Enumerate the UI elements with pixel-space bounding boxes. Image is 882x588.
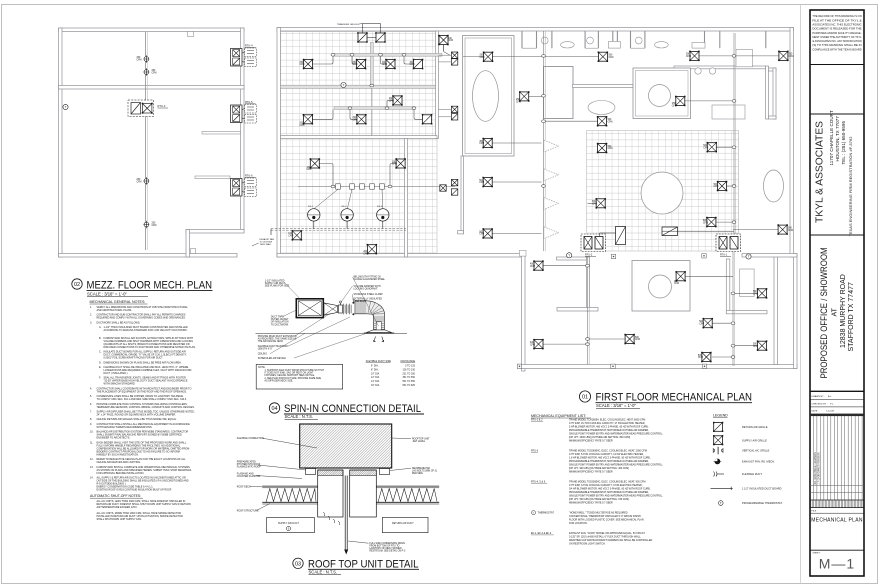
spin-in fitting cone [324, 303, 338, 315]
title block: seal area [810, 113, 864, 115]
svg-text:REQUIRED AND COMPLY WITH ALL G: REQUIRED AND COMPLY WITH ALL GOVERNING C… [97, 317, 187, 320]
svg-text:501 TO 650: 501 TO 650 [402, 381, 415, 383]
svg-text:CFM: CFM [288, 236, 293, 238]
svg-text:6" DIA.: 6" DIA. [371, 365, 379, 368]
svg-text:MECHANICAL PLAN: MECHANICAL PLAN [811, 518, 863, 524]
svg-text:TEL : (281) 650-9595: TEL : (281) 650-9595 [841, 121, 846, 165]
svg-text:DATE :: DATE : [812, 410, 820, 413]
svg-text:& ASSOCIATES INC. ANY MODI: & ASSOCIATES INC. ANY MODIFICATION [812, 40, 861, 43]
rooftop detail labels [237, 438, 437, 553]
svg-text:PROPOSED OFFICE / SHOWROOM: PROPOSED OFFICE / SHOWROOM [819, 248, 829, 379]
svg-text:EF-2: EF-2 [342, 206, 348, 208]
svg-text:D.: D. [99, 361, 102, 364]
svg-text:AIR TEMPERATURE EXCEED 125 F.: AIR TEMPERATURE EXCEED 125 F. [97, 506, 138, 509]
svg-text:CFM: CFM [152, 225, 157, 227]
svg-text:MINIMUM EFFICIENCY RATE 9.7 SE: MINIMUM EFFICIENCY RATE 9.7 SEER [569, 502, 613, 505]
svg-text:CFM: CFM [788, 230, 793, 232]
svg-text:CFM: CFM [479, 234, 484, 236]
air flow arrows under diffuser [374, 337, 384, 342]
conference room [463, 36, 515, 157]
svg-text:CFM: CFM [363, 254, 368, 256]
svg-text:4.: 4. [90, 387, 92, 390]
svg-text:FLEXIBLE DUCT SIZE: FLEXIBLE DUCT SIZE [366, 360, 392, 363]
svg-text:AT: AT [832, 307, 839, 316]
svg-text:AS DIFFUSER NECK SIZE.: AS DIFFUSER NECK SIZE. [265, 380, 294, 383]
svg-text:14.: 14. [90, 477, 94, 480]
svg-text:STAFFORD TX 77477: STAFFORD TX 77477 [848, 282, 855, 351]
svg-text:OUTER JACKET: OUTER JACKET [271, 318, 289, 321]
svg-text:SUPPLY AIR DUCT: SUPPLY AIR DUCT [265, 282, 286, 285]
svg-text:7.: 7. [90, 411, 92, 414]
svg-text:CFM: CFM [608, 121, 613, 123]
svg-text:CFM: CFM [703, 147, 708, 149]
svg-text:231 TO 350: 231 TO 350 [402, 373, 415, 375]
svg-text:LOCKING QUADRANT: LOCKING QUADRANT [354, 287, 379, 290]
svg-text:FIXTURES, CEILING SUPPORT TEES: FIXTURES, CEILING SUPPORT TEES OR TILE. [265, 375, 316, 377]
showroom ceiling grid [587, 131, 739, 252]
svg-text:AND ARCHITECTURAL PLANS.: AND ARCHITECTURAL PLANS. [97, 309, 133, 312]
ceiling line [256, 332, 408, 334]
svg-text:1 7-10-08 OWNER REVISION: 1 7-10-08 OWNER REVISION [818, 452, 821, 484]
vertical a/c grilles (triangles) [544, 140, 559, 239]
office room with round table [633, 68, 691, 119]
svg-text:8.: 8. [90, 418, 92, 421]
svg-text:1 1/2" INSULATED DUCT BOARD: 1 1/2" INSULATED DUCT BOARD [742, 487, 782, 490]
svg-text:CFM: CFM [530, 344, 535, 346]
svg-text:T: T [568, 253, 570, 257]
conference table oval [473, 71, 499, 122]
svg-text:LEGEND: LEGEND [713, 414, 728, 418]
svg-text:SCALE : N.T.S.: SCALE : N.T.S. [309, 569, 338, 574]
svg-text:12.: 12. [90, 458, 94, 461]
svg-text:MEZZ. FLOOR MECH. PLAN: MEZZ. FLOOR MECH. PLAN [87, 280, 213, 292]
svg-text:CFM: CFM [410, 64, 415, 66]
roof deck lines + bar joists [262, 486, 439, 504]
spin-in note box [256, 365, 343, 390]
svg-text:DOCUMENT IS RELEASED: DOCUMENT IS RELEASED FOR THE [812, 28, 862, 31]
svg-text:RETURN AIR GRILLE: RETURN AIR GRILLE [742, 426, 768, 429]
svg-text:CFM: CFM [448, 40, 453, 42]
condensate drain pipe [344, 476, 348, 555]
svg-text:DUCTWORK SHALL BE AS FOLLOWS:: DUCTWORK SHALL BE AS FOLLOWS: [97, 321, 141, 324]
svg-text:C.: C. [99, 351, 102, 354]
svg-text:1. SUPPORT FLEX DUCT FROM STRU: 1. SUPPORT FLEX DUCT FROM STRUCTURE SO T… [265, 369, 325, 372]
oval table small [588, 101, 615, 115]
reception desk [736, 49, 752, 67]
svg-text:12838 MURPHY ROAD: 12838 MURPHY ROAD [840, 274, 847, 348]
svg-text:SEE PLANS FOR SIZE: SEE PLANS FOR SIZE [265, 285, 290, 288]
svg-text:CFM: CFM [608, 148, 613, 150]
svg-text:01: 01 [582, 395, 588, 401]
return grilles (diagonal boxes) [413, 59, 433, 125]
svg-text:14" DIA.: 14" DIA. [371, 380, 380, 383]
svg-text:CFM: CFM [479, 143, 484, 145]
legend: insulated duct board [711, 487, 733, 490]
svg-text:EF-1: EF-1 [308, 206, 314, 208]
svg-text:FLASHING AND: FLASHING AND [237, 473, 254, 476]
transfer grilles pair [337, 23, 386, 43]
svg-text:DUCT TAPE: DUCT TAPE [271, 316, 284, 319]
svg-text:MINIMUM EFFICIENCY RATE 9.7 SE: MINIMUM EFFICIENCY RATE 9.7 SEER [569, 440, 613, 443]
svg-text:7-10-08: 7-10-08 [826, 411, 835, 413]
spin-in leader labels right [340, 277, 385, 327]
RTU-2 unit [581, 234, 606, 257]
RTU-3 unit callout on mezz [128, 100, 168, 117]
thermostat symbols on plan [341, 82, 751, 368]
flex connection marks in supply duct [323, 512, 340, 525]
svg-text:ACCORDING TO AMACNA STANDARD F: ACCORDING TO AMACNA STANDARD FOR LOW VEL… [104, 329, 188, 332]
svg-text:RTU-1 & 2: RTU-1 & 2 [531, 419, 543, 422]
svg-text:5.: 5. [90, 395, 92, 398]
svg-text:NEOPRENE PAD: NEOPRENE PAD [412, 467, 430, 470]
svg-text:CFM: CFM [389, 101, 394, 103]
svg-text:12" DIA.: 12" DIA. [371, 376, 380, 379]
svg-text:CFM: CFM [137, 60, 142, 62]
svg-text:FLASHED INTO ROOF: FLASHED INTO ROOF [237, 466, 262, 469]
svg-text:ASSOCIATES INC. THIS: ASSOCIATES INC. THIS ELECTRONIC [812, 24, 861, 27]
svg-text:HIMSELF BY SUCH INVESTIGATION.: HIMSELF BY SUCH INVESTIGATION. [97, 453, 139, 456]
mezz diffuser 250 CFM [137, 177, 150, 185]
casework [712, 105, 745, 119]
svg-text:1-1/2" INSULATED: 1-1/2" INSULATED [265, 280, 285, 283]
svg-text:FLEXIBLE DUCT MAXIMUM: FLEXIBLE DUCT MAXIMUM [258, 345, 288, 348]
right oval table [764, 170, 784, 202]
duct main runs [298, 31, 736, 366]
svg-text:16" DIA.: 16" DIA. [371, 384, 380, 387]
svg-text:THE AIR DEVICE NECK: THE AIR DEVICE NECK [258, 340, 284, 343]
svg-text:DUCT ( INSULATED ).: DUCT ( INSULATED ). [104, 372, 129, 375]
svg-text:RTU-5: RTU-5 [245, 101, 253, 104]
svg-text:THE PLACEMENT OF EQUIPMENT ON: THE PLACEMENT OF EQUIPMENT ON THE ROOF A… [97, 390, 188, 393]
svg-text:FIRST FLOOR MECHANICAL PLAN: FIRST FLOOR MECHANICAL PLAN [596, 392, 753, 404]
legend: exhaust fan [714, 459, 722, 465]
svg-text:ROOF DECK: ROOF DECK [237, 487, 251, 489]
svg-text:B.: B. [99, 337, 102, 340]
svg-text:S: S [288, 527, 290, 531]
svg-text:PREFABRICATED: PREFABRICATED [237, 461, 256, 464]
right small room [769, 68, 777, 119]
svg-text:IT DOES NOT KINK, SAG OR REST: IT DOES NOT KINK, SAG OR REST ON LIGHT [265, 372, 315, 375]
legend: vertical a/c grille [713, 447, 723, 455]
wall below conference room [458, 156, 526, 256]
svg-text:CFM: CFM [703, 222, 708, 224]
svg-text:RTU-6: RTU-6 [245, 175, 253, 178]
svg-text:CFM: CFM [300, 125, 305, 127]
svg-text:CFM: CFM [392, 164, 397, 166]
svg-text:DRAWN BY :: DRAWN BY : [812, 395, 826, 398]
svg-text:CEILING RETURN AIR GRILLES SHA: CEILING RETURN AIR GRILLES SHALL BE TITU… [97, 418, 178, 421]
svg-text:0 TO 125: 0 TO 125 [405, 366, 416, 368]
svg-text:CFM: CFM [307, 169, 312, 171]
legend: flexible duct [714, 472, 725, 477]
svg-text:SHALL SHUTDOWN UNIT SUPPLY FAN: SHALL SHUTDOWN UNIT SUPPLY FAN. [97, 518, 142, 521]
RTU-5 unit [231, 101, 257, 123]
svg-text:-SET LEVEL: -SET LEVEL [412, 441, 426, 443]
svg-text:FLEX DUCT: FLEX DUCT [354, 301, 368, 303]
svg-text:11707 CHAPELLE COURT: 11707 CHAPELLE COURT [829, 110, 834, 165]
svg-text:NOTE:: NOTE: [258, 367, 266, 369]
toilet room stub walls along top [522, 31, 766, 48]
svg-text:RESTROOM. SEE DETAIL ON P-3: RESTROOM. SEE DETAIL ON P-3 [369, 550, 406, 553]
svg-text:MECHANICAL GENERAL NOTES:: MECHANICAL GENERAL NOTES: [90, 300, 146, 304]
svg-text:A.L.: A.L. [828, 395, 832, 398]
svg-text:T: T [720, 501, 722, 505]
svg-text:CFM: CFM [753, 346, 758, 348]
svg-text:T: T [748, 255, 750, 259]
mezz diffuser 250 CFM (upper) [137, 55, 150, 63]
svg-text:2.: 2. [90, 314, 92, 317]
svg-text:11.: 11. [90, 441, 94, 444]
mezz diffuser 250 CFM (lower) [144, 221, 157, 229]
return air duct label box [382, 517, 428, 532]
RTU-6 unit [231, 175, 257, 197]
svg-text:CFM: CFM [479, 182, 484, 184]
svg-text:RTU-4: RTU-4 [245, 45, 253, 48]
svg-text:CFM: CFM [699, 323, 704, 325]
flexible duct size table [366, 360, 416, 387]
lower wing rooms [557, 254, 798, 365]
svg-text:SCHEDULED AIR DEVICE: SCHEDULED AIR DEVICE [258, 357, 287, 360]
diffusers served from vertical grille duct [479, 138, 542, 239]
title: first floor mechanical plan [579, 391, 752, 408]
mezz thermostat symbol [63, 104, 68, 109]
svg-text:LENGTH 6'-0": LENGTH 6'-0" [258, 349, 273, 351]
CFM labels [288, 38, 793, 359]
return duct below unit [350, 470, 377, 517]
svg-text:EXISTING ROOF IS R19 CONTINUE: EXISTING ROOF IS R19 CONTINUE INSULATION… [97, 489, 173, 492]
svg-text:9.: 9. [90, 423, 92, 426]
title block: thick separator band [810, 414, 864, 417]
svg-text:DIMENSIONS SHOWN ON PLANS SHAL: DIMENSIONS SHOWN ON PLANS SHALL BE FREE … [104, 361, 182, 364]
title block frame [810, 10, 864, 576]
svg-text:TKYL & ASSOCIATES: TKYL & ASSOCIATES [815, 121, 826, 223]
svg-text:FOR LOCATION.: FOR LOCATION. [569, 522, 588, 525]
svg-text:SUPPLY AIR DUCT: SUPPLY AIR DUCT [278, 522, 300, 525]
svg-text:SCALE : 3/16" = 1'-0": SCALE : 3/16" = 1'-0" [87, 291, 127, 296]
svg-text:CEILING: CEILING [258, 354, 268, 356]
svg-text:24" x 24" FACE, ROUND OR SQUAR: 24" x 24" FACE, ROUND OR SQUARE NECK WIT… [97, 414, 177, 417]
svg-text:AUTOMATIC SHUT-OFF NOTES:: AUTOMATIC SHUT-OFF NOTES: [90, 494, 141, 498]
svg-text:MENT UNDER THE AUTHORITY O: MENT UNDER THE AUTHORITY OF TKYL [812, 36, 862, 39]
bellmouth flare at ceiling [364, 330, 394, 333]
svg-text:CFM: CFM [137, 182, 142, 184]
svg-text:FOR APPROVAL BEFORE INSTALLATI: FOR APPROVAL BEFORE INSTALLATION. [97, 472, 145, 475]
flex duct (straight corrugated run) [344, 304, 352, 315]
svg-text:651 TO 825: 651 TO 825 [402, 385, 415, 387]
svg-text:126 TO 230: 126 TO 230 [402, 369, 415, 371]
svg-text:CFM: CFM [353, 64, 358, 66]
svg-text:CFM: CFM [152, 73, 157, 75]
svg-text:RTU-3: RTU-3 [158, 104, 166, 108]
svg-text:SUPPLY AIR GRILLE: SUPPLY AIR GRILLE [742, 439, 767, 442]
exhaust fans EF-1/2/3 [308, 189, 389, 228]
RTU-1 unit [716, 234, 741, 257]
svg-text:TEXAS ENGINEERING FIRM REGISTR: TEXAS ENGINEERING FIRM REGISTRATION #F-5… [848, 136, 853, 237]
svg-text:T: T [343, 83, 345, 87]
svg-text:CEILING AIR DEVICES AND LIGHTI: CEILING AIR DEVICES AND LIGHTING. [97, 461, 142, 464]
svg-text:13.: 13. [90, 466, 94, 469]
svg-text:E.: E. [99, 366, 102, 369]
svg-text:(S) TO THIS DRAWING SHAL: (S) TO THIS DRAWING SHALL BE IN [812, 44, 861, 47]
svg-text:FILE AT THE OFFICE O: FILE AT THE OFFICE OF TKYL & [812, 19, 862, 22]
svg-text:CFM: CFM [592, 204, 597, 206]
supply air duct label box [267, 517, 315, 532]
svg-text:T: T [65, 105, 67, 109]
branch ducts [312, 45, 779, 358]
spin-in leader labels left [258, 280, 368, 360]
svg-text:PROGRAMMABLE THERMOSTAT: PROGRAMMABLE THERMOSTAT [742, 502, 782, 505]
svg-text:RETURN AIR DUCT: RETURN AIR DUCT [392, 522, 414, 525]
svg-text:EF-3: EF-3 [377, 206, 383, 208]
svg-text:CFM: CFM [530, 266, 535, 268]
svg-text:CFM: CFM [480, 57, 485, 59]
mezz diffuser 250 CFM [144, 68, 157, 76]
mechanical general notes body [90, 306, 196, 492]
svg-text:F.: F. [99, 377, 101, 380]
svg-text:04: 04 [271, 406, 277, 412]
svg-text:2. SEE PLAN FOR DUCT SIZE. PRO: 2. SEE PLAN FOR DUCT SIZE. PROVIDE SAME … [265, 377, 322, 380]
svg-text:ROOF STRUCTURE: ROOF STRUCTURE [237, 511, 259, 513]
svg-text:CFM: CFM [789, 56, 794, 58]
svg-text:CFM: CFM [672, 105, 677, 107]
spin-in detail: insulated supply duct box [296, 299, 323, 318]
svg-text:0.0002" FOIL SCRIM KRAFT FACIN: 0.0002" FOIL SCRIM KRAFT FACING FOR AIR … [104, 357, 164, 360]
svg-text:8" DIA.: 8" DIA. [371, 368, 379, 371]
showroom circle display [641, 172, 683, 214]
svg-text:CFM: CFM [698, 357, 703, 359]
volume damper w/ locking quadrant [338, 301, 342, 313]
svg-text:CFM: CFM [714, 186, 719, 188]
first floor exterior walls [277, 28, 797, 372]
duct row 3 small outlets [336, 184, 385, 189]
svg-text:SCALE : N.T.S.: SCALE : N.T.S. [285, 414, 314, 419]
flex duct elbow (corrugated 90 bend) [352, 301, 384, 330]
supply duct below unit [318, 470, 343, 517]
svg-text:6.: 6. [90, 403, 92, 406]
svg-text:ON RESTROOM LIGHT SWITCH.: ON RESTROOM LIGHT SWITCH. [569, 543, 606, 546]
svg-text:ENGINEER TO ARCHITECTS.: ENGINEER TO ARCHITECTS. [97, 437, 131, 440]
exhaust duct (dashed) [271, 229, 406, 235]
supply diffusers (x-boxes) [292, 35, 789, 363]
svg-text:GAUGE GALVANIZED STEEL: GAUGE GALVANIZED STEEL [354, 278, 386, 281]
svg-text:EF-1, EF-2 & EF-3: EF-1, EF-2 & EF-3 [531, 532, 552, 535]
title block: sheet number area [810, 549, 864, 551]
title block: dense tick band [811, 500, 863, 507]
svg-text:SHEET :: SHEET : [813, 553, 822, 555]
svg-text:TO DUCTWORK: TO DUCTWORK [271, 324, 289, 326]
svg-text:RTU-1: RTU-1 [720, 254, 728, 257]
svg-text:FLEXIBLE DUCT: FLEXIBLE DUCT [742, 473, 762, 476]
rooftop unit (hatched) [300, 424, 392, 468]
office ceiling grid (lower) [281, 137, 438, 254]
svg-text:CFM: CFM [300, 64, 305, 66]
junction markers on risers [331, 54, 736, 359]
svg-text:CFM: CFM [609, 57, 614, 59]
svg-text:PER SIDE: PER SIDE [412, 473, 423, 475]
title block: drawn/checked/date rows [810, 395, 864, 413]
svg-text:THE RECORD OF THIS DRAWING: THE RECORD OF THIS DRAWING IS ON [812, 15, 861, 18]
svg-text:PURPOSES AND/OR FACILITY MA: PURPOSES AND/OR FACILITY MANAGE- [812, 32, 861, 35]
svg-text:CFM RANGE: CFM RANGE [400, 360, 415, 363]
svg-text:TRANSFER GRILLE: TRANSFER GRILLE [337, 23, 358, 26]
svg-text:AS REQUIRED, THE SAME SIZE AS: AS REQUIRED, THE SAME SIZE AS [258, 338, 297, 341]
svg-text:EXHAUST FAN, RD. MECH.: EXHAUST FAN, RD. MECH. [742, 460, 775, 463]
svg-text:M—1: M—1 [819, 556, 855, 572]
svg-text:VERTICAL A/C GRILLE: VERTICAL A/C GRILLE [742, 450, 770, 453]
svg-text:CFM: CFM [753, 294, 758, 296]
svg-text:STAINLESS STEEL CLAMP: STAINLESS STEEL CLAMP [354, 293, 384, 296]
svg-text:P.L.: P.L. [830, 403, 834, 405]
svg-text:MINIMUM EFFICIENCY RATE 9.7 SE: MINIMUM EFFICIENCY RATE 9.7 SEER [569, 471, 613, 474]
interior walls, office area [281, 31, 439, 257]
svg-text:MECHANICAL EQUIPMENT LIST:: MECHANICAL EQUIPMENT LIST: [531, 414, 586, 418]
mezzanine supply duct riser [146, 32, 148, 250]
svg-text:03: 03 [295, 562, 301, 568]
svg-text:RTU-2: RTU-2 [585, 254, 593, 257]
svg-text:WITH MANUFACTURER'S RECOMMENDA: WITH MANUFACTURER'S RECOMMENDATIONS. [97, 426, 153, 429]
office ceiling grid (upper left) [281, 32, 437, 137]
svg-text:02: 02 [74, 282, 80, 288]
title: spin-in connection detail [269, 403, 424, 420]
svg-text:TEMPERATURE SENSORS, CONTROL W: TEMPERATURE SENSORS, CONTROL WIRING, CON… [97, 406, 195, 409]
svg-text:CFM: CFM [674, 283, 679, 285]
volume damper near RTU-1 [662, 227, 734, 236]
svg-text:HOUSTON, TX 77077: HOUSTON, TX 77077 [835, 116, 840, 162]
title block: revision table [810, 416, 864, 500]
svg-text:TO COMPLY UMC SEC. 310.1 AND R: TO COMPLY UMC SEC. 310.1 AND REF. SIZE S… [97, 398, 188, 401]
svg-text:351 TO 550: 351 TO 550 [402, 377, 415, 379]
svg-text:SPIN-IN CONNECTION DETAIL: SPIN-IN CONNECTION DETAIL [284, 403, 421, 415]
svg-text:FILE :: FILE : [812, 511, 818, 513]
toilet fixtures [541, 37, 668, 48]
svg-text:3.: 3. [90, 321, 92, 324]
small wall-mounted register pairs [439, 45, 458, 196]
svg-text:CHECKED BY :: CHECKED BY : [812, 403, 828, 405]
svg-text:10" DIA.: 10" DIA. [371, 372, 380, 375]
svg-text:OF INSULATION: OF INSULATION [271, 321, 289, 324]
equipment list body [531, 419, 663, 546]
svg-text:COMPLIANCE WITH THE TE: COMPLIANCE WITH THE TEXAS BOARD [812, 48, 861, 51]
title: roof top unit detail [293, 558, 419, 574]
svg-text:CFM: CFM [516, 102, 521, 104]
svg-text:1.: 1. [90, 306, 92, 309]
svg-text:CFM: CFM [382, 64, 387, 66]
svg-text:DIFFUSER CONNECTIONS TO DUCTWO: DIFFUSER CONNECTIONS TO DUCTWORK AND OTH… [104, 346, 197, 349]
legend: programmable thermostat [719, 501, 724, 506]
volume damper near RTU-2 [600, 227, 626, 245]
svg-text:A.: A. [99, 326, 102, 329]
svg-text:EXTERNALLY INSULATED: EXTERNALLY INSULATED [354, 297, 383, 300]
legend: return air grille [713, 422, 723, 432]
svg-text:SCALE : 3/16" = 1'-0": SCALE : 3/16" = 1'-0" [596, 403, 636, 408]
svg-text:WITH SMACNA STANDARD.: WITH SMACNA STANDARD. [104, 383, 136, 386]
svg-text:10.: 10. [90, 431, 94, 434]
svg-text:THRU WALL: THRU WALL [260, 243, 273, 246]
svg-text:RTU-3: RTU-3 [531, 450, 539, 453]
mezzanine floor plan walls [59, 28, 245, 257]
legend: supply air grille [713, 435, 723, 445]
svg-text:CFM: CFM [635, 339, 640, 341]
svg-text:THERMOSTAT: THERMOSTAT [538, 512, 555, 515]
svg-text:RTU-4, 5 & 6: RTU-4, 5 & 6 [531, 481, 546, 484]
title block: disclaimer text [812, 15, 862, 51]
svg-text:CFM: CFM [353, 120, 358, 122]
svg-text:FLEXIBLE CONNECTION: FLEXIBLE CONNECTION [237, 438, 264, 440]
roof curbs [306, 469, 316, 475]
meeting room walls [544, 66, 769, 119]
title: mezz floor mech plan [72, 279, 213, 297]
svg-text:CFM: CFM [686, 56, 691, 58]
